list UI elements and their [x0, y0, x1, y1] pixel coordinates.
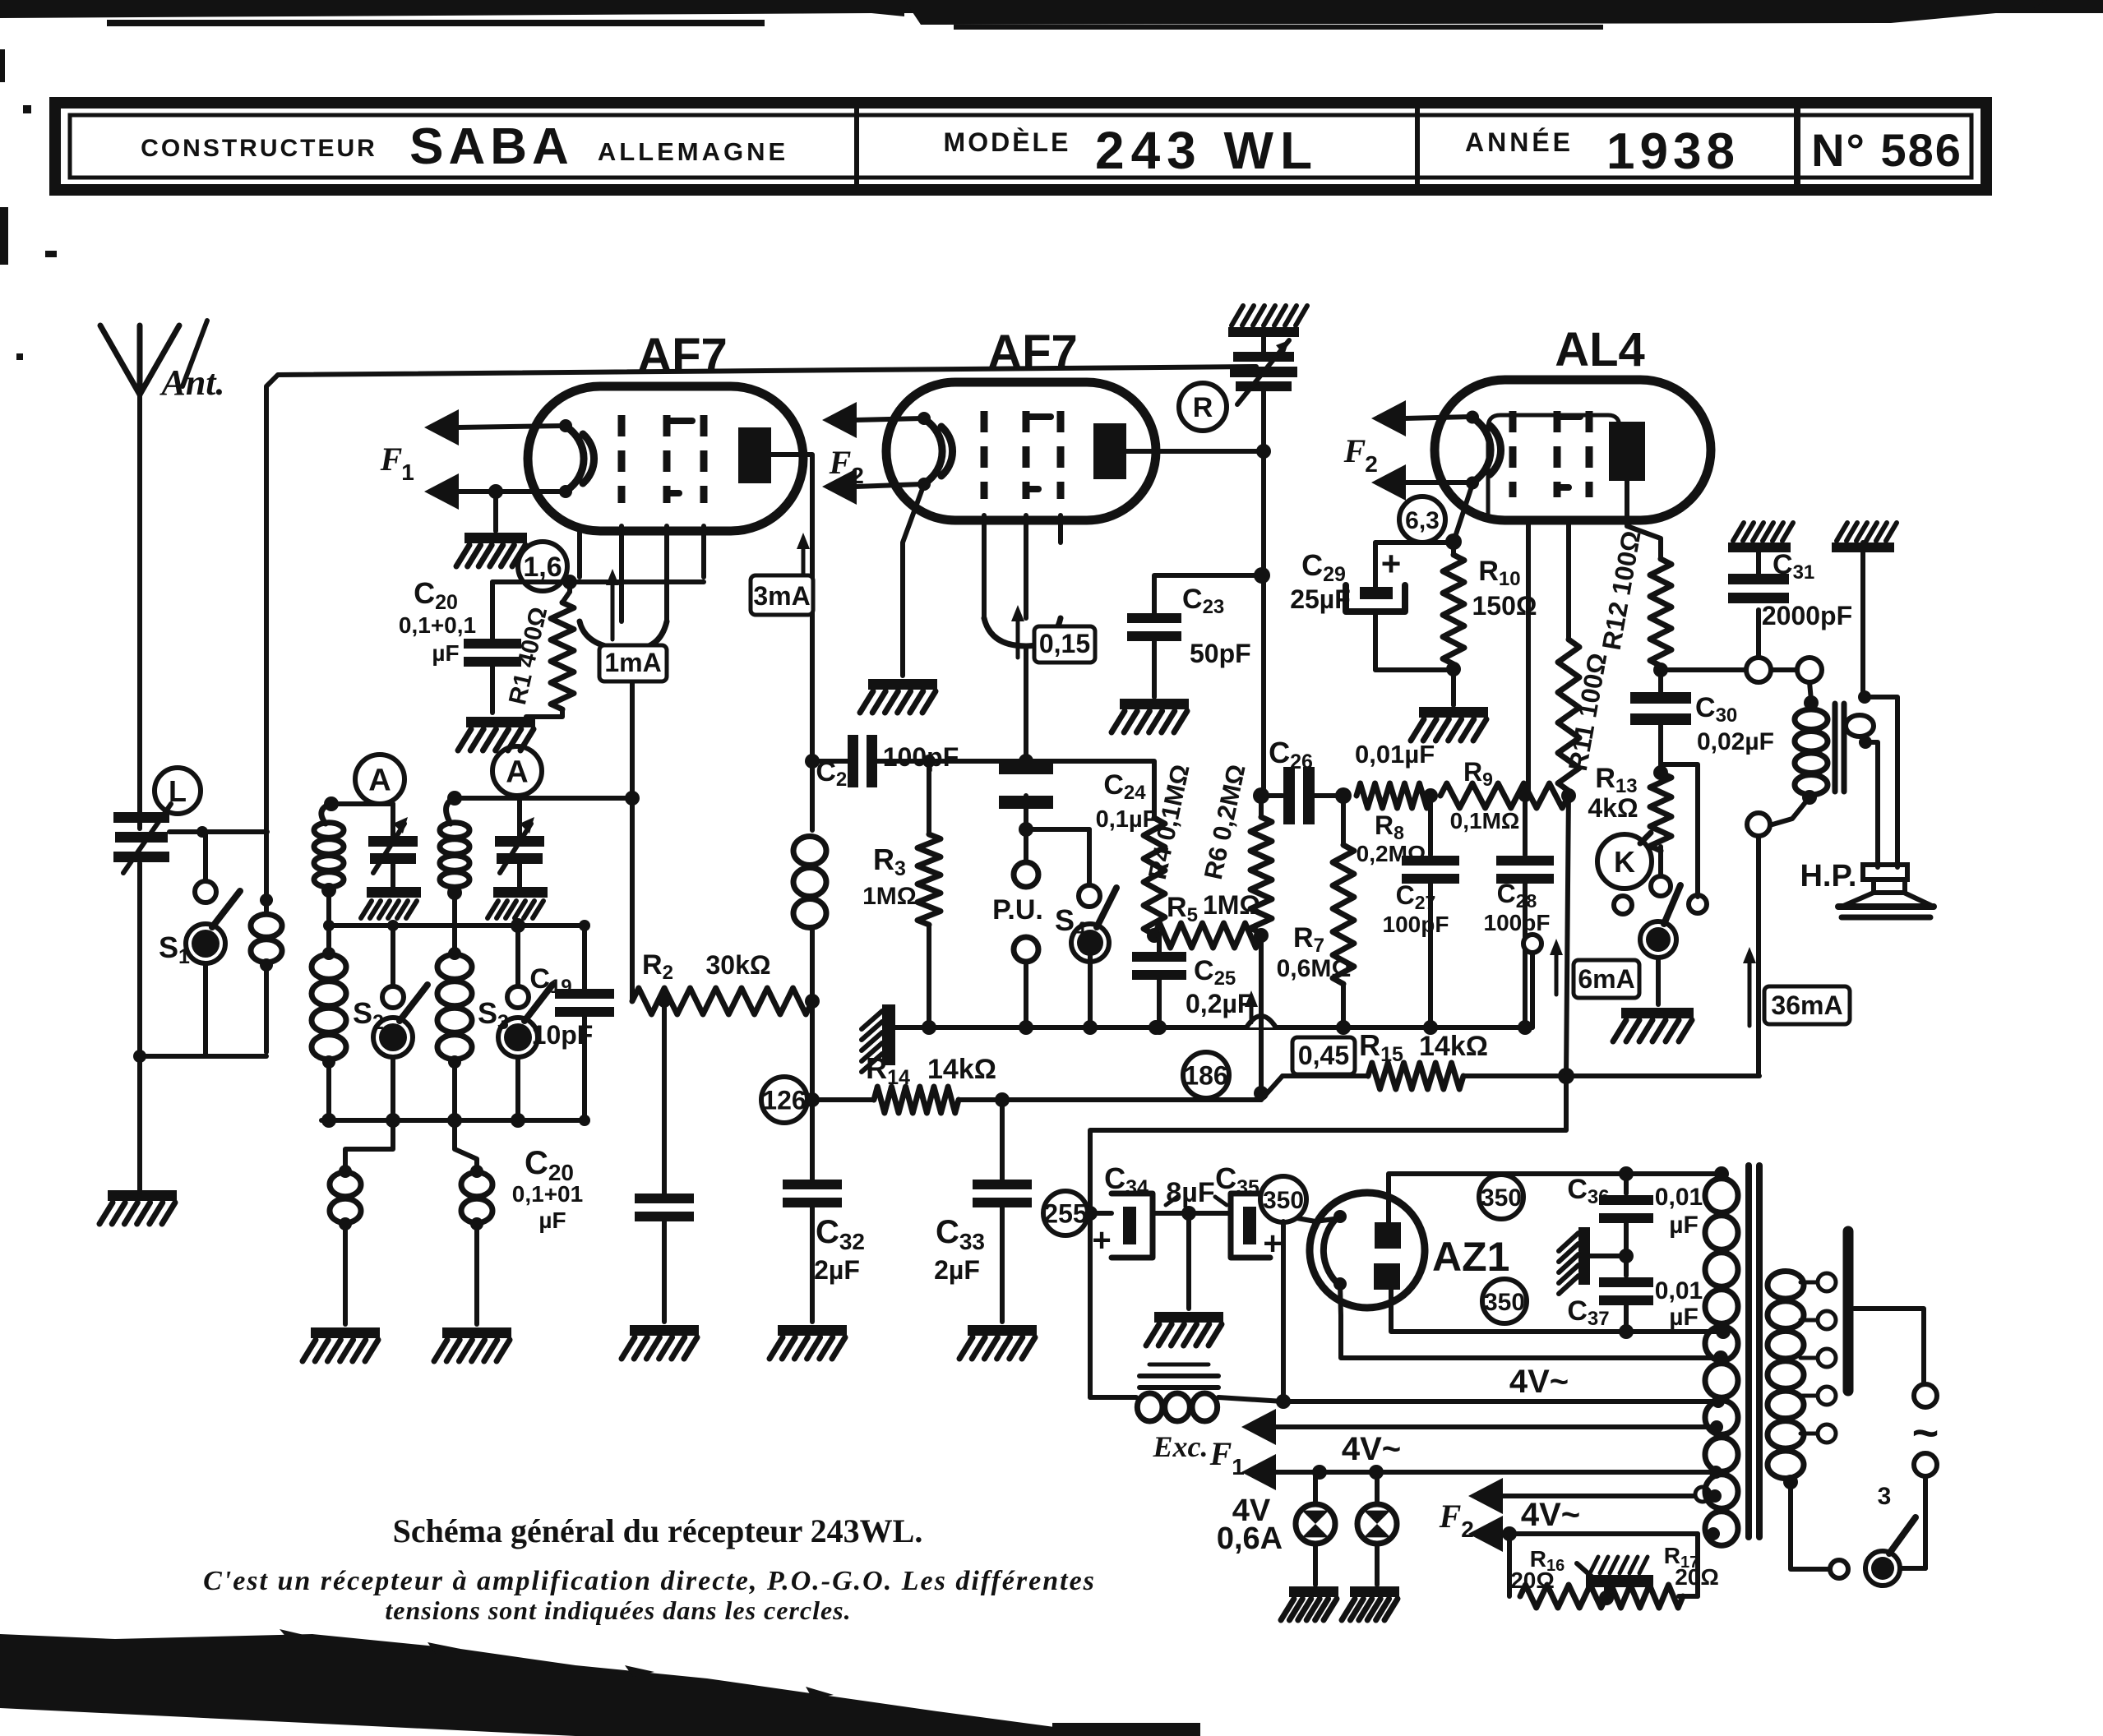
- label 4V 0,6A: [1217, 1494, 1283, 1556]
- PU terminals: [1014, 829, 1038, 1027]
- svg-text:1938: 1938: [1606, 123, 1740, 180]
- svg-text:20Ω: 20Ω: [1675, 1564, 1719, 1590]
- pilot lamp 2: [1357, 1472, 1397, 1585]
- label PU: [992, 894, 1043, 926]
- label AF7 second: [987, 325, 1078, 379]
- header text MODELE 243 WL: [944, 121, 1319, 180]
- frame wire from rail down left side: [266, 367, 1256, 832]
- label AF7 first: [637, 329, 728, 382]
- switch S4: [1026, 829, 1116, 1027]
- bottom scan blob: [0, 1629, 1200, 1736]
- tuner bottom bus: [321, 1113, 590, 1128]
- label R14: [866, 1051, 996, 1089]
- capacitor C20 upper: [464, 582, 570, 713]
- svg-text:AL4: AL4: [1555, 323, 1645, 376]
- ground C23: [1112, 699, 1189, 732]
- label R6 rotated: [1199, 762, 1251, 882]
- svg-text:25µF: 25µF: [1290, 584, 1351, 614]
- svg-text:µF: µF: [432, 640, 459, 666]
- svg-text:10pF: 10pF: [532, 1020, 594, 1050]
- speaker HP: [1838, 865, 1934, 917]
- antenna coupling coil low 1: [330, 1120, 393, 1324]
- label R8: [1357, 810, 1426, 866]
- bus hop over V1534: [1246, 1016, 1276, 1027]
- svg-text:AF7: AF7: [637, 329, 728, 382]
- circle 350 b: [1479, 1175, 1523, 1219]
- pilot lamp 1: [1296, 1472, 1335, 1585]
- secondary yoke bar: [1843, 1231, 1854, 1391]
- speaker terminal circle low: [1747, 813, 1770, 1076]
- switch S3: [498, 926, 552, 1120]
- V2 anode wire to V1537: [1126, 444, 1271, 459]
- header frame: [55, 103, 1986, 190]
- grid coil V2: [793, 754, 826, 1100]
- svg-text:F: F: [1209, 1435, 1232, 1472]
- svg-text:350: 350: [1481, 1184, 1522, 1212]
- label R5 1M: [1167, 890, 1260, 926]
- tuning coil 1 lower: [312, 926, 346, 1120]
- wire antenna to ground: [137, 863, 142, 1190]
- label AZ1: [1432, 1234, 1509, 1280]
- label C26: [1269, 736, 1435, 773]
- HT center tap ground wall: [1559, 1227, 1634, 1294]
- svg-text:A: A: [368, 764, 391, 798]
- label C19 10pF: [529, 963, 593, 1050]
- tuning coil 2 upper: [440, 791, 469, 887]
- svg-text:+: +: [1263, 1226, 1282, 1262]
- V1 grid dashes: [622, 415, 704, 503]
- wire bottom tuner to antenna: [133, 1050, 266, 1063]
- svg-text:0,02µF: 0,02µF: [1697, 728, 1774, 755]
- EXC core bars: [1139, 1364, 1218, 1387]
- svg-text:2000pF: 2000pF: [1762, 601, 1852, 630]
- current arrow 3mA: [751, 533, 813, 615]
- svg-text:4V~: 4V~: [1521, 1497, 1580, 1533]
- label C33: [934, 1214, 985, 1285]
- svg-text:F: F: [380, 441, 403, 478]
- svg-text:CONSTRUCTEUR: CONSTRUCTEUR: [141, 135, 377, 162]
- svg-text:0,01: 0,01: [1655, 1184, 1703, 1211]
- variable capacitor 1: [368, 817, 418, 887]
- svg-text:K: K: [1614, 845, 1635, 879]
- svg-text:tensions sont indiquées dans l: tensions sont indiquées dans les cercles…: [385, 1595, 851, 1625]
- label HP: [1800, 859, 1856, 893]
- ground coil low 2: [434, 1327, 511, 1361]
- svg-text:36mA: 36mA: [1771, 990, 1842, 1020]
- svg-text:Schéma général du récepteur 24: Schéma général du récepteur 243WL.: [393, 1512, 923, 1549]
- V2 anode: [1093, 423, 1126, 479]
- capacitor C28: [1496, 789, 1554, 1027]
- tuning coil 2 lower: [437, 885, 472, 1120]
- ground speaker top: [1832, 523, 1897, 552]
- resistor R6: [1250, 801, 1272, 935]
- capacitor C32: [783, 1100, 842, 1322]
- wire coil1 top to varcap1: [331, 804, 393, 836]
- wire EXC to transformer: [1218, 1221, 1717, 1409]
- label R17 20: [1664, 1543, 1719, 1590]
- label Exc: [1153, 1430, 1209, 1463]
- switch S1: [186, 832, 240, 1056]
- svg-text:3mA: 3mA: [753, 581, 810, 611]
- svg-text:Ant.: Ant.: [159, 362, 224, 403]
- svg-text:ALLEMAGNE: ALLEMAGNE: [598, 137, 788, 166]
- label F1 top: [380, 441, 414, 485]
- svg-text:0,01: 0,01: [1655, 1277, 1703, 1304]
- svg-text:30kΩ: 30kΩ: [705, 950, 770, 980]
- current arrow 6mA: [1550, 939, 1639, 998]
- svg-text:2: 2: [1365, 451, 1378, 477]
- wire tuner top bus y1012: [169, 826, 267, 838]
- svg-text:µF: µF: [1669, 1212, 1699, 1239]
- variable capacitor antenna tuning: [113, 804, 171, 873]
- resistor R10: [1443, 542, 1464, 664]
- header text No 586: [1811, 124, 1962, 176]
- label R2 30k: [642, 949, 770, 984]
- V3 grid dashes: [1513, 411, 1589, 497]
- ground C20 R1: [458, 717, 535, 750]
- label R1 400: [504, 604, 552, 707]
- cathode return bus: [889, 1020, 1532, 1035]
- label 4V first: [1509, 1364, 1569, 1400]
- ground bar varcap1: [361, 887, 421, 918]
- current arrow 36mA: [1743, 947, 1850, 1026]
- capacitor C30: [1630, 670, 1691, 780]
- svg-text:AZ1: AZ1: [1432, 1234, 1509, 1280]
- mains circuit: [1791, 1309, 1939, 1586]
- svg-text:6,3: 6,3: [1405, 507, 1440, 534]
- ground tone switch: [1613, 1008, 1694, 1041]
- label R10: [1472, 556, 1537, 621]
- svg-text:2: 2: [1461, 1517, 1474, 1542]
- V3 screen lead R11: [1558, 524, 1579, 1076]
- wire contact to bus: [1523, 935, 1541, 1027]
- electrolytic C29: [1346, 542, 1405, 670]
- label 4V third: [1521, 1497, 1580, 1533]
- caption italic line 1: [203, 1566, 1096, 1596]
- label C24: [1096, 769, 1158, 833]
- resistor R4: [1144, 818, 1165, 943]
- label R3 1M: [862, 843, 917, 910]
- ground lamp1: [1281, 1586, 1338, 1620]
- C34 C35 midpoint ground: [1146, 1213, 1223, 1346]
- label R13: [1588, 763, 1638, 823]
- V1 anode wire: [771, 455, 812, 830]
- circle 1,6: [518, 542, 567, 591]
- svg-text:0,15: 0,15: [1039, 629, 1090, 658]
- svg-text:N° 586: N° 586: [1811, 124, 1962, 176]
- label F2 tube3: [1343, 432, 1378, 477]
- svg-text:0,1MΩ: 0,1MΩ: [1450, 808, 1520, 833]
- transformer secondary winding: [1768, 1271, 1804, 1489]
- label C21 100pF: [816, 742, 959, 791]
- label R7: [1277, 922, 1352, 982]
- label C34: [1104, 1161, 1149, 1199]
- svg-text:243 WL: 243 WL: [1095, 121, 1319, 180]
- svg-text:0,2µF: 0,2µF: [1186, 989, 1253, 1018]
- V1537 anode feed: [1254, 451, 1270, 796]
- svg-text:14kΩ: 14kΩ: [927, 1054, 996, 1085]
- capacitor C26: [1253, 767, 1352, 824]
- svg-text:F: F: [1343, 432, 1366, 469]
- resistor R15: [1283, 1063, 1759, 1089]
- svg-text:1MΩ: 1MΩ: [1203, 890, 1260, 920]
- label R12 rotated: [1597, 529, 1647, 653]
- svg-text:2µF: 2µF: [814, 1255, 860, 1285]
- output transformer core: [1835, 704, 1844, 792]
- wire link row y1126: [323, 918, 590, 933]
- circle 350 a: [1260, 1176, 1306, 1222]
- svg-text:R: R: [1193, 392, 1213, 423]
- ground C33: [959, 1325, 1037, 1359]
- resistor R13: [1650, 773, 1671, 851]
- terminal circles: [1746, 658, 1822, 682]
- junction coil1 bottom: [321, 883, 336, 926]
- V2 cathode lead to ground: [860, 484, 937, 713]
- ground F1: [456, 492, 527, 566]
- resistor R8: [1357, 783, 1438, 808]
- current arrow 0,45: [1245, 990, 1355, 1074]
- header text ANNEE 1938: [1465, 123, 1740, 180]
- label S3: [478, 996, 509, 1034]
- svg-text:+: +: [1381, 544, 1402, 583]
- caption italic line 2: [385, 1595, 851, 1625]
- tube V3 AL4: [1435, 380, 1711, 520]
- svg-text:186: 186: [1184, 1061, 1227, 1091]
- svg-text:+: +: [1092, 1222, 1111, 1258]
- top scan border band: [0, 0, 2103, 30]
- label R4 rotated: [1143, 762, 1195, 882]
- current arrow 0,15: [1011, 605, 1095, 663]
- transformer core: [1749, 1166, 1759, 1537]
- V2 filament arrows F2: [822, 402, 922, 505]
- label 8uF: [1166, 1177, 1227, 1208]
- resistor R9: [1440, 783, 1569, 808]
- svg-text:100pF: 100pF: [883, 742, 959, 772]
- resistor R14: [805, 1087, 1261, 1113]
- meter circle A2: [492, 746, 542, 796]
- meter circle A1: [355, 755, 404, 804]
- svg-text:2: 2: [851, 463, 864, 488]
- antenna coupling coil low 2: [455, 1120, 492, 1324]
- hum pot R16 R17: [1509, 1534, 1698, 1608]
- svg-text:ANNÉE: ANNÉE: [1465, 127, 1574, 157]
- svg-text:1: 1: [1232, 1454, 1245, 1480]
- output transformer primary: [1773, 682, 1828, 824]
- circle 255: [1043, 1191, 1088, 1235]
- V3 cathode lead: [1454, 484, 1472, 542]
- svg-text:0,1+01: 0,1+01: [512, 1181, 583, 1207]
- svg-text:F: F: [1439, 1498, 1462, 1535]
- label C36: [1567, 1174, 1703, 1239]
- svg-text:0,01µF: 0,01µF: [1355, 740, 1435, 769]
- tone switch contacts: [1614, 847, 1707, 1004]
- svg-text:Exc.: Exc.: [1153, 1430, 1209, 1463]
- svg-text:µF: µF: [1669, 1304, 1699, 1331]
- label C32: [814, 1214, 865, 1285]
- label F2 tube2: [829, 444, 864, 488]
- current arrow 1mA: [599, 569, 667, 681]
- label C37: [1567, 1277, 1703, 1331]
- label F2 bottom: [1439, 1498, 1474, 1542]
- label C29 25uF: [1290, 548, 1351, 614]
- ground lamp2: [1342, 1586, 1399, 1620]
- svg-text:0,45: 0,45: [1298, 1041, 1349, 1070]
- svg-text:0,1+0,1: 0,1+0,1: [399, 612, 476, 638]
- label R15: [1359, 1028, 1488, 1066]
- label 4V second: [1342, 1431, 1401, 1467]
- svg-text:0,6MΩ: 0,6MΩ: [1277, 955, 1352, 982]
- ground C31 top: [1728, 523, 1793, 552]
- power transformer primary winding: [1705, 1179, 1738, 1545]
- svg-text:P.U.: P.U.: [992, 894, 1043, 926]
- capacitor C21: [812, 735, 1033, 787]
- wire C30 node to contact: [1662, 764, 1698, 897]
- V3 screen box: [1488, 415, 1620, 520]
- tuning coil 1 upper: [314, 796, 344, 887]
- label C20 lower: [512, 1145, 583, 1233]
- label C35: [1215, 1161, 1259, 1199]
- circle 186: [1183, 1052, 1229, 1098]
- rectifier AZ1: [1310, 1193, 1425, 1308]
- svg-text:50pF: 50pF: [1190, 639, 1251, 668]
- label C25: [1186, 955, 1253, 1018]
- capacitor C23: [1127, 575, 1262, 697]
- V2 grid dashes: [984, 411, 1061, 499]
- circle 350 c: [1482, 1279, 1527, 1323]
- V3 anode lead R12: [1627, 481, 1671, 677]
- label F1 bottom: [1209, 1435, 1245, 1480]
- label S4: [1055, 903, 1086, 941]
- svg-text:6mA: 6mA: [1578, 964, 1634, 994]
- capacitor C36: [1599, 1174, 1653, 1256]
- switch S2: [373, 926, 428, 1120]
- label R11 rotated: [1563, 651, 1613, 773]
- svg-text:100pF: 100pF: [1383, 912, 1449, 937]
- capacitor C20 lower: [635, 995, 694, 1322]
- electrolytic C35: [1189, 1193, 1315, 1262]
- svg-text:AF7: AF7: [987, 325, 1078, 379]
- resistor R1 400ohm: [526, 582, 574, 717]
- electrolytic C34: [1088, 1193, 1196, 1258]
- svg-text:1MΩ: 1MΩ: [862, 883, 917, 910]
- resistor R7: [1333, 796, 1354, 1027]
- capacitor C31: [1728, 552, 1789, 658]
- circle 6,3: [1399, 496, 1445, 542]
- svg-text:126: 126: [762, 1086, 806, 1115]
- svg-text:1,6: 1,6: [523, 552, 562, 583]
- label C27: [1383, 880, 1449, 937]
- svg-text:0,1µF: 0,1µF: [1096, 806, 1158, 833]
- label R9: [1450, 757, 1520, 833]
- V2 leads below: [984, 515, 1061, 618]
- label S1: [159, 930, 190, 968]
- stray mark 3: [1878, 1483, 1892, 1510]
- svg-text:4kΩ: 4kΩ: [1588, 793, 1638, 823]
- resistor R2 30k: [632, 988, 820, 1014]
- caption bold line: [393, 1512, 923, 1549]
- tube V2 AF7: [886, 382, 1156, 520]
- ground C32: [770, 1325, 847, 1359]
- svg-text:C'est un récepteur à amplifica: C'est un récepteur à amplification direc…: [203, 1566, 1096, 1596]
- svg-text:A: A: [506, 755, 528, 790]
- label S2: [353, 996, 384, 1034]
- R10 C29 join ground: [1375, 662, 1488, 741]
- label AL4: [1555, 323, 1645, 376]
- tube V1 AF7: [528, 386, 803, 531]
- left edge scan marks: [0, 49, 57, 360]
- svg-text:MODÈLE: MODÈLE: [944, 127, 1071, 157]
- label C31: [1762, 549, 1852, 630]
- transformer taps left: [1707, 1395, 1725, 1540]
- svg-text:µF: µF: [538, 1207, 566, 1233]
- svg-text:F: F: [829, 444, 852, 481]
- wire A2 row to V1 grid line: [455, 791, 640, 836]
- svg-text:255: 255: [1043, 1199, 1087, 1229]
- circle R: [1179, 383, 1227, 431]
- svg-text:100pF: 100pF: [1484, 910, 1551, 935]
- label C30: [1695, 692, 1774, 755]
- output transformer secondary: [1846, 690, 1897, 867]
- label C20 upper: [399, 576, 476, 666]
- speaker return wires: [1566, 1073, 1759, 1078]
- V1 anode: [738, 427, 771, 483]
- svg-text:350: 350: [1484, 1289, 1525, 1316]
- label C28: [1484, 879, 1551, 935]
- V1 leads below: [580, 526, 704, 621]
- ground top trimmer: [1228, 306, 1307, 337]
- V3 filament arrows F2: [1371, 400, 1472, 501]
- antenna: [100, 321, 207, 829]
- header text CONSTRUCTEUR SABA ALLEMAGNE: [141, 118, 788, 175]
- capacitor C37: [1599, 1256, 1653, 1332]
- V3 cathode node wire: [1375, 533, 1462, 550]
- resistor R3 1M: [917, 755, 941, 1027]
- svg-text:4V~: 4V~: [1342, 1431, 1401, 1467]
- resistor R5: [1154, 923, 1269, 948]
- label R16 20: [1510, 1546, 1565, 1593]
- capacitor C33: [973, 1100, 1032, 1322]
- rail jog: [1261, 1076, 1283, 1100]
- capacitor C19: [555, 926, 614, 1120]
- svg-text:350: 350: [1263, 1187, 1304, 1214]
- capacitor C24: [999, 761, 1053, 837]
- svg-text:3: 3: [1878, 1483, 1892, 1510]
- HT box bottom: [1391, 1290, 1731, 1339]
- HT box top: [1389, 1166, 1729, 1222]
- svg-text:1: 1: [401, 459, 414, 485]
- V2 grid merge brace: [984, 618, 1061, 761]
- field coil EXC circuit: [1090, 1213, 1218, 1421]
- svg-text:14kΩ: 14kΩ: [1419, 1031, 1488, 1062]
- node L circle: [155, 768, 201, 814]
- ground antenna: [99, 1190, 177, 1224]
- svg-text:1mA: 1mA: [604, 648, 661, 677]
- capacitor C25: [1132, 935, 1186, 1035]
- circle K: [1597, 833, 1652, 889]
- AZ1 cathode output down: [1340, 1284, 1728, 1365]
- ground C20 lower: [622, 1325, 699, 1359]
- V1 screen wire to cathode node: [562, 575, 704, 589]
- svg-text:20Ω: 20Ω: [1510, 1567, 1555, 1593]
- trimmer capacitor to ground top: [1230, 337, 1297, 451]
- ground bar varcap2: [488, 887, 548, 918]
- F2 heater arrows: [1468, 1478, 1710, 1552]
- wire anode node to terminals: [1661, 667, 1748, 672]
- V3 anode: [1609, 422, 1645, 481]
- V1 grid merge brace: [580, 621, 667, 1001]
- secondary taps: [1800, 1273, 1836, 1443]
- label Ant.: [159, 362, 224, 403]
